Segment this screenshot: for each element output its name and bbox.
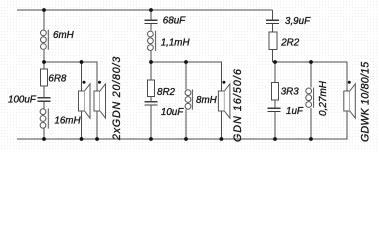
svg-text:6R8: 6R8 [48, 73, 67, 84]
svg-text:16mH: 16mH [54, 116, 81, 127]
svg-text:GDN 16/50/6: GDN 16/50/6 [232, 68, 244, 142]
svg-text:8R2: 8R2 [157, 87, 176, 98]
svg-text:3,9uF: 3,9uF [285, 16, 311, 27]
svg-text:2xGDN 20/80/3: 2xGDN 20/80/3 [111, 56, 123, 141]
svg-text:3R3: 3R3 [281, 87, 300, 98]
svg-text:GDWK 10/80/15: GDWK 10/80/15 [360, 62, 372, 142]
svg-text:1,1mH: 1,1mH [161, 37, 191, 48]
svg-text:0,27mH: 0,27mH [318, 80, 329, 116]
svg-text:8mH: 8mH [196, 95, 218, 106]
svg-text:1uF: 1uF [286, 106, 304, 117]
svg-text:6mH: 6mH [53, 30, 75, 41]
svg-text:68uF: 68uF [163, 16, 186, 27]
svg-text:100uF: 100uF [8, 95, 37, 106]
svg-text:2R2: 2R2 [280, 38, 300, 49]
svg-text:10uF: 10uF [161, 107, 184, 118]
